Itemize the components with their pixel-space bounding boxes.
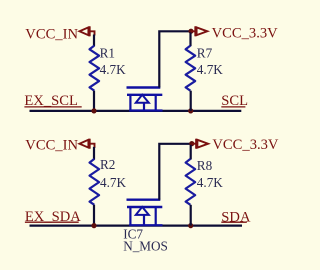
- underline SDA: [221, 221, 247, 223]
- wire: gate up and right to VCC_3.3V (top): [159, 31, 191, 87]
- resistor R8 (4.7K pull-up to 3.3V): [186, 159, 196, 205]
- wire EX_SDA horizontal main: [30, 224, 243, 226]
- svg-text:4.7K: 4.7K: [100, 62, 126, 77]
- transistor IC7 (N-MOS): [127, 200, 163, 226]
- junction SDA / R8: [188, 223, 193, 228]
- svg-text:R8: R8: [197, 158, 213, 173]
- resistor R2 (4.7K pull-up to VCC_IN): [90, 159, 100, 205]
- power port arrow VCC_IN (bottom, pointing left): [80, 139, 95, 149]
- wire: R2 down to EX_SDA net: [93, 205, 95, 226]
- transistor Q top (N-MOS): [127, 88, 163, 111]
- wire: VCC_IN port down to R1: [93, 35, 95, 47]
- junction SCL / R7: [188, 108, 193, 113]
- wire: VCC_IN port down to R2: [93, 147, 95, 160]
- wire EX_SCL horizontal main: [30, 110, 242, 112]
- underline SCL: [221, 106, 245, 108]
- svg-text:VCC_IN: VCC_IN: [25, 27, 78, 43]
- power port arrow VCC_3.3V (bottom, pointing right): [192, 139, 209, 149]
- svg-text:R7: R7: [197, 45, 213, 60]
- svg-text:4.7K: 4.7K: [197, 62, 223, 77]
- svg-text:N_MOS: N_MOS: [123, 238, 168, 253]
- svg-text:VCC_3.3V: VCC_3.3V: [212, 137, 279, 153]
- wire: VCC_3.3V down to R8: [190, 145, 192, 160]
- svg-text:4.7K: 4.7K: [100, 175, 126, 190]
- svg-text:R2: R2: [100, 157, 115, 172]
- underline EX_SCL: [24, 106, 81, 108]
- svg-text:VCC_3.3V: VCC_3.3V: [212, 26, 279, 42]
- wire: gate up and right to VCC_3.3V (bottom): [159, 144, 192, 200]
- junction EX_SDA / R2: [91, 223, 96, 228]
- resistor R7 (4.7K pull-up to 3.3V): [186, 46, 196, 91]
- junction gate / VCC_3.3V (top): [188, 29, 193, 34]
- wire: R8 down to SDA net: [190, 205, 192, 226]
- junction EX_SCL / R1: [91, 108, 96, 113]
- power port arrow VCC_IN (top, pointing left): [80, 26, 95, 36]
- wire: R7 down to SCL net: [190, 91, 192, 111]
- svg-text:R1: R1: [100, 46, 115, 61]
- wire: VCC_3.3V down to R7: [189, 33, 191, 47]
- junction gate / VCC_3.3V (bottom): [189, 141, 194, 146]
- power port arrow VCC_3.3V (top, pointing right): [191, 26, 208, 36]
- svg-text:SDA: SDA: [221, 209, 251, 225]
- wire: R1 down to EX_SCL net: [93, 91, 95, 111]
- svg-text:4.7K: 4.7K: [197, 175, 223, 190]
- resistor R1 (4.7K pull-up to VCC_IN): [90, 46, 100, 91]
- svg-text:VCC_IN: VCC_IN: [25, 138, 78, 154]
- underline EX_SDA: [25, 221, 79, 223]
